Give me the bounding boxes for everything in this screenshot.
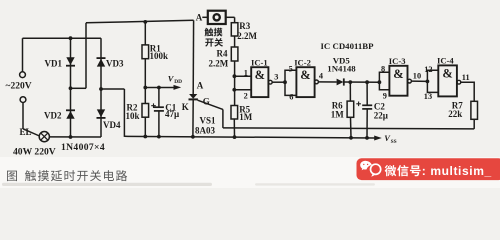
scan streak	[2, 183, 212, 186]
svg-text:SS: SS	[391, 139, 397, 145]
svg-text:A: A	[197, 81, 204, 91]
svg-text:R3: R3	[239, 21, 250, 31]
wire pin2	[234, 89, 251, 91]
wire R6 bottom lead	[350, 117, 353, 137]
svg-text:IC-3: IC-3	[389, 56, 406, 66]
node R6 on Vss	[349, 136, 353, 140]
node pin3 junction	[283, 80, 287, 84]
wire DC- drop to Vss rail	[123, 89, 125, 137]
wire pin3 out	[272, 81, 285, 83]
svg-text:8A03: 8A03	[195, 126, 215, 136]
label touch switch 触摸开关	[204, 28, 213, 37]
svg-text:IC-2: IC-2	[294, 57, 311, 67]
wire R3 top lead	[234, 17, 236, 22]
svg-text:EL: EL	[20, 127, 32, 137]
wire VS1 anode from top rail	[192, 20, 194, 94]
wire switch to R3	[226, 16, 235, 18]
wire Vss rail	[124, 136, 374, 138]
svg-text:IC CD4011BP: IC CD4011BP	[321, 41, 375, 51]
node bridge DC+ left	[69, 86, 73, 90]
svg-text:40W 220V: 40W 220V	[13, 147, 56, 158]
node K on Vss rail	[191, 135, 195, 139]
svg-text:12: 12	[424, 65, 432, 74]
wire C2 top lead	[366, 82, 368, 105]
wire lamp to bridge bottom	[49, 136, 101, 138]
wire C1 top lead	[158, 88, 160, 108]
wire to pin9	[379, 82, 389, 90]
VDD arrow	[174, 85, 182, 90]
node R5 on Vss	[233, 135, 237, 139]
node R1 top tap	[143, 20, 147, 24]
svg-text:DD: DD	[174, 79, 182, 85]
svg-text:&: &	[442, 67, 452, 81]
resistor R4	[231, 47, 238, 61]
wire diagonal to lamp	[23, 129, 40, 136]
wire pin11 out to R7	[461, 82, 474, 101]
C1 polarity +	[151, 103, 156, 108]
wire R5 bottom lead	[233, 119, 235, 137]
IC-4 output bubble	[457, 80, 461, 84]
wire pin1	[234, 75, 251, 77]
wire VD5 cathode to node	[344, 81, 380, 83]
svg-text:13: 13	[424, 92, 432, 101]
svg-text:R4: R4	[217, 49, 228, 59]
node C2 on Vss	[365, 136, 369, 140]
Vss arrow	[374, 136, 382, 141]
svg-text:&: &	[255, 68, 265, 82]
IC-1 output bubble	[268, 80, 272, 84]
svg-text:4: 4	[319, 72, 323, 81]
svg-text:22k: 22k	[448, 109, 462, 119]
svg-text:A: A	[196, 13, 203, 23]
wire C2 bottom lead	[366, 109, 368, 138]
svg-text:5: 5	[289, 64, 293, 73]
diode VD2	[66, 111, 74, 119]
node C2 tap	[365, 80, 369, 84]
diode VD1	[66, 57, 74, 65]
IC-3 output bubble	[408, 79, 412, 83]
resistor R3	[231, 23, 238, 36]
svg-text:3: 3	[274, 72, 278, 81]
svg-text:100k: 100k	[150, 51, 169, 61]
node pin10 junction	[426, 80, 430, 84]
wire to pin13	[427, 81, 438, 92]
wire gate line G to R7	[223, 127, 474, 130]
svg-text:9: 9	[383, 91, 387, 100]
node R6 tap	[348, 80, 352, 84]
wire AC line L to bridge top	[23, 37, 102, 39]
svg-text:22µ: 22µ	[374, 111, 389, 121]
WeChat icon	[360, 161, 381, 177]
IC-4 gate U1D	[438, 65, 457, 96]
svg-text:47µ: 47µ	[165, 109, 180, 119]
svg-text:1: 1	[244, 68, 248, 77]
svg-text:IC-1: IC-1	[251, 57, 268, 67]
svg-text:: multisim_: : multisim_	[422, 164, 492, 178]
C2 polarity +	[356, 102, 361, 107]
node pin2 tap	[232, 88, 236, 92]
svg-text:11: 11	[462, 73, 470, 82]
wire R6 top lead	[349, 82, 351, 101]
node VDD	[143, 86, 147, 90]
svg-text:2.2M: 2.2M	[237, 31, 257, 41]
svg-text:1M: 1M	[331, 109, 345, 119]
AC terminal T2 (~220V bottom)	[20, 97, 26, 103]
wire R4 down to R5	[234, 61, 236, 106]
wire gate diagonal	[198, 100, 223, 109]
wire VDD stub	[145, 87, 174, 89]
wire to pin12	[427, 70, 438, 81]
svg-text:8: 8	[381, 64, 385, 73]
banner text 微信号: multisim_	[385, 165, 397, 176]
diode VD5	[337, 79, 344, 86]
touch switch SB	[208, 11, 226, 24]
diode VD3	[97, 59, 105, 67]
caption 图 触摸延时开关电路	[7, 171, 17, 182]
wire R2 bottom lead	[144, 117, 146, 137]
wire R1 top lead	[144, 22, 146, 45]
svg-text:VD4: VD4	[103, 120, 121, 130]
wire pin4 out	[318, 81, 336, 83]
svg-text:K: K	[182, 102, 189, 112]
svg-text:2: 2	[244, 92, 248, 101]
wire R7 bottom	[473, 119, 475, 129]
svg-text:&: &	[393, 67, 403, 81]
svg-text:&: &	[300, 68, 310, 82]
wire gate drop	[222, 109, 224, 128]
node pin1 tap	[233, 74, 237, 78]
node R2 on Vss	[143, 135, 147, 139]
svg-text:VD3: VD3	[106, 58, 124, 68]
svg-text:2.2M: 2.2M	[209, 59, 229, 69]
node pins 8-9 junction	[378, 80, 382, 84]
wire pin10 out	[411, 80, 427, 82]
wire VS1 cathode	[192, 99, 194, 136]
IC-2 output bubble	[315, 80, 319, 84]
svg-text:1N4007×4: 1N4007×4	[61, 142, 105, 153]
IC-3 gate U1C	[389, 66, 407, 96]
wire to pin5	[285, 70, 296, 82]
wire bridge left column	[70, 38, 72, 137]
svg-text:10: 10	[413, 71, 421, 80]
node junction VD2 bottom	[69, 135, 73, 139]
wire to pin6	[285, 82, 296, 95]
wire touch plate stub	[202, 16, 208, 18]
WeChat watermark banner	[357, 158, 500, 180]
resistor R1	[142, 45, 149, 59]
svg-text:1M: 1M	[239, 112, 253, 122]
svg-text:VD2: VD2	[44, 110, 62, 120]
wire T1 up	[22, 38, 24, 72]
resistor R6	[347, 101, 354, 117]
IC-2 gate U1B	[296, 67, 314, 97]
svg-text:G: G	[203, 96, 210, 106]
resistor R2	[142, 104, 149, 118]
wire top rail VDD+	[86, 20, 194, 23]
resistor R7	[471, 101, 478, 119]
resistor R5	[231, 106, 238, 120]
lamp EL	[39, 132, 49, 142]
wire R1-R2 column	[144, 59, 146, 104]
svg-text:VS1: VS1	[200, 115, 217, 125]
wire DC+ link	[71, 87, 87, 89]
svg-text:~220V: ~220V	[6, 82, 32, 92]
svg-text:IC-4: IC-4	[437, 55, 454, 65]
node C1 on Vss	[157, 135, 161, 139]
thyristor VS1	[189, 94, 197, 99]
IC-1 gate U1A	[251, 67, 268, 97]
svg-text:6: 6	[289, 93, 293, 102]
wire to pin8	[379, 72, 389, 82]
wire bridge right column	[100, 38, 102, 137]
node junction VD1 top	[69, 36, 73, 40]
svg-text:VD1: VD1	[45, 58, 63, 68]
wire T2 down	[22, 103, 24, 129]
diode VD4	[97, 109, 105, 117]
wire DC- link	[101, 88, 124, 90]
wire DC+ riser x86	[85, 23, 87, 89]
node C1 tap	[157, 86, 161, 90]
AC terminal T1 (~220V top)	[20, 72, 26, 78]
svg-text:1N4148: 1N4148	[327, 64, 356, 74]
wire C1 bottom lead	[158, 111, 160, 137]
svg-text:10k: 10k	[126, 111, 140, 121]
node bridge DC- right	[99, 87, 103, 91]
wire R3-R4	[234, 36, 236, 47]
